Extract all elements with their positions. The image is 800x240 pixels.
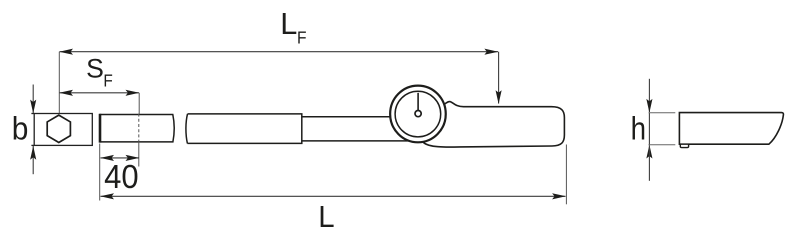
dashed center line [138, 114, 140, 142]
shaft section with break edge [186, 114, 302, 143]
L_F dimension line [59, 49, 501, 104]
svg-text:F: F [103, 72, 112, 91]
S_F dimension line [59, 90, 139, 96]
svg-text:b: b [12, 110, 29, 146]
wrench head rectangle [31, 114, 92, 146]
40 left extension line [99, 144, 101, 201]
svg-text:h: h [631, 112, 646, 148]
svg-text:40: 40 [104, 158, 138, 195]
side profile view [679, 113, 783, 145]
svg-text:F: F [297, 27, 307, 47]
dimension b arrows [30, 85, 36, 175]
handle [419, 102, 564, 147]
svg-text:L: L [318, 200, 334, 234]
svg-text:S: S [86, 54, 104, 84]
narrow tube to dial [302, 116, 392, 118]
h extension lines [649, 112, 676, 114]
needle [417, 93, 419, 111]
hexagon opening [47, 115, 70, 142]
profile tab [680, 144, 688, 147]
svg-text:L: L [280, 6, 297, 41]
40 dimension line [100, 155, 139, 161]
h dimension arrows [646, 79, 652, 181]
L right extension line [565, 145, 567, 205]
40mm section [100, 115, 174, 142]
S_F right extension line [138, 93, 140, 114]
40mm section thick left edge [99, 114, 102, 143]
needle pivot [415, 111, 421, 117]
dial outer circle [390, 86, 446, 143]
S_F / L_F left extension line [58, 52, 60, 113]
dial face [395, 91, 441, 137]
L dimension line [100, 193, 566, 199]
